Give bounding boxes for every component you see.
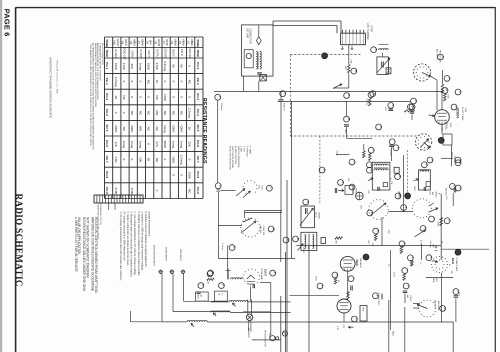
svg-text:1. DC voltage measurements ta: 1. DC voltage measurements taken with va…	[119, 211, 122, 281]
svg-text:2.2meg: 2.2meg	[114, 77, 118, 87]
svg-text:7: 7	[405, 269, 409, 271]
svg-text:3: 3	[398, 175, 402, 177]
svg-text:6: 6	[355, 318, 359, 320]
svg-text:245V: 245V	[315, 276, 317, 281]
svg-text:Pin 2: Pin 2	[105, 78, 109, 85]
svg-text:V2: V2	[178, 41, 182, 45]
svg-text:COIL: COIL	[260, 185, 262, 191]
svg-text:Pin 9: Pin 9	[105, 187, 109, 194]
svg-text:Pin 3: Pin 3	[105, 93, 109, 100]
svg-text:1meg: 1meg	[180, 141, 184, 149]
svg-text:5: 5	[232, 246, 236, 248]
svg-text:1meg: 1meg	[163, 125, 167, 133]
svg-text:22K: 22K	[188, 142, 192, 147]
svg-text:455KC: 455KC	[435, 192, 437, 199]
svg-text:Pin 6: Pin 6	[196, 140, 200, 147]
svg-text:V8: V8	[129, 41, 133, 45]
svg-text:100K: 100K	[188, 172, 192, 179]
svg-text:15: 15	[155, 80, 159, 84]
svg-text:NC NO CONNECTION: NC NO CONNECTION	[101, 43, 103, 65]
svg-text:voltage measurements.: voltage measurements.	[147, 211, 150, 237]
svg-text:AT MINIMUM POSITION: AT MINIMUM POSITION	[99, 204, 102, 225]
svg-text:MIX 6BE6: MIX 6BE6	[437, 301, 439, 311]
svg-text:2.2meg: 2.2meg	[163, 61, 167, 71]
svg-text:8: 8	[306, 201, 310, 203]
svg-text:IN 'AM' POSITION: IN 'AM' POSITION	[234, 146, 237, 164]
svg-text:DET: DET	[344, 66, 346, 71]
svg-text:1M: 1M	[199, 295, 201, 298]
svg-text:470K: 470K	[163, 94, 167, 101]
svg-text:M: M	[271, 228, 275, 231]
svg-text:7: 7	[393, 141, 397, 143]
svg-text:1. AM: 1. AM	[240, 146, 243, 152]
svg-text:7: 7	[351, 278, 355, 280]
svg-text:6BA6: 6BA6	[141, 39, 145, 46]
svg-text:PAGE 6: PAGE 6	[3, 9, 12, 37]
svg-text:6X4: 6X4	[149, 40, 153, 45]
svg-text:B: B	[354, 70, 358, 72]
svg-text:2ND IF: 2ND IF	[172, 49, 175, 57]
svg-text:2.2meg: 2.2meg	[188, 108, 192, 118]
svg-text:2: 2	[270, 187, 274, 189]
svg-text:Pin 4: Pin 4	[196, 109, 200, 116]
svg-text:1meg: 1meg	[122, 141, 126, 149]
svg-text:8: 8	[411, 106, 415, 108]
svg-text:Pin 1: Pin 1	[196, 62, 200, 69]
svg-text:247V: 247V	[393, 272, 395, 277]
svg-text:Pin 5: Pin 5	[196, 124, 200, 131]
svg-text:1ST AM IF AMP: 1ST AM IF AMP	[455, 257, 458, 272]
svg-text:240mmf: 240mmf	[220, 103, 222, 111]
svg-text:PHONO MOTOR: PHONO MOTOR	[264, 330, 266, 347]
svg-text:240mmf: 240mmf	[283, 103, 285, 111]
svg-text:3: 3	[423, 227, 427, 229]
svg-text:NOT SHOWN ON SCHEMATIC DIAGRAM: NOT SHOWN ON SCHEMATIC DIAGRAM	[86, 217, 90, 278]
svg-text:Pin 6: Pin 6	[105, 140, 109, 147]
svg-text:M: M	[443, 307, 447, 310]
svg-text:Pin 7: Pin 7	[105, 156, 109, 163]
svg-text:OSC MIX: OSC MIX	[188, 48, 191, 59]
svg-text:Pin 8: Pin 8	[196, 171, 200, 178]
svg-text:1K: 1K	[188, 127, 192, 131]
svg-text:Pin 7: Pin 7	[196, 156, 200, 163]
svg-text:25mf: 25mf	[361, 307, 363, 312]
svg-text:TUBE: TUBE	[196, 39, 200, 47]
svg-text:CONV: CONV	[131, 50, 134, 57]
svg-text:M: M	[370, 164, 374, 167]
svg-text:1: 1	[371, 94, 375, 96]
svg-text:9: 9	[322, 169, 326, 171]
svg-text:Pin 4: Pin 4	[105, 109, 109, 116]
svg-text:V3: V3	[170, 41, 174, 45]
svg-text:OSC: OSC	[257, 185, 259, 190]
svg-text:100K: 100K	[171, 125, 175, 132]
svg-text:2.2meg: 2.2meg	[221, 243, 223, 251]
svg-text:2: 2	[218, 96, 222, 98]
svg-text:CONV SW: CONV SW	[262, 226, 264, 236]
svg-text:68: 68	[171, 64, 175, 68]
svg-text:100K: 100K	[147, 63, 151, 70]
svg-text:22K: 22K	[384, 107, 386, 111]
svg-text:6BA6: 6BA6	[173, 39, 177, 46]
svg-text:4. Line voltage maintained at: 4. Line voltage maintained at 117 volts …	[133, 211, 136, 276]
svg-text:2. FM: 2. FM	[243, 146, 245, 152]
svg-text:DET AVC: DET AVC	[164, 48, 167, 58]
svg-text:MICROPHONE INPUT: MICROPHONE INPUT	[153, 245, 155, 267]
svg-text:4. TAPE: 4. TAPE	[248, 146, 251, 154]
svg-text:PHONO INPUT: PHONO INPUT	[165, 247, 167, 262]
svg-text:470K: 470K	[155, 63, 159, 70]
svg-text:9: 9	[447, 77, 451, 79]
svg-text:SWITCH SEQUENCE:: SWITCH SEQUENCE:	[237, 146, 239, 169]
svg-text:3: 3	[352, 161, 356, 163]
svg-text:100mf: 100mf	[268, 333, 270, 339]
svg-text:NO DIM RESISTANCE VALUES UNDER: NO DIM RESISTANCE VALUES UNDER ONE OHM	[82, 217, 86, 291]
svg-text:5: 5	[379, 126, 383, 128]
svg-text:ARROWS ON CONTROLS INDICATE CL: ARROWS ON CONTROLS INDICATE CLOCKWISE	[91, 217, 95, 291]
svg-text:6: 6	[347, 94, 351, 96]
svg-text:6AL5: 6AL5	[124, 39, 128, 46]
svg-text:SLUG: SLUG	[315, 212, 317, 218]
svg-text:©Howard W. Sams & Co., Inc. 19: ©Howard W. Sams & Co., Inc. 1958	[55, 60, 58, 94]
svg-text:6: 6	[396, 147, 400, 149]
svg-text:1.5 10%: 1.5 10%	[389, 149, 391, 156]
svg-text:RECT: RECT	[147, 50, 150, 57]
svg-text:.1: .1	[155, 189, 159, 192]
svg-text:A PHOTOFACT STANDARD NOTATION: A PHOTOFACT STANDARD NOTATION SCHEMATIC	[49, 57, 53, 118]
svg-text:10K: 10K	[138, 157, 142, 162]
svg-text:25mf: 25mf	[458, 292, 460, 297]
svg-text:ITEM: ITEM	[196, 50, 200, 57]
svg-text:1ST AF AMP: 1ST AF AMP	[260, 268, 263, 280]
svg-text:455KC: 455KC	[355, 188, 357, 195]
svg-text:4: 4	[404, 206, 408, 208]
svg-text:V7: V7	[137, 41, 141, 45]
svg-text:2ND AM IF: 2ND AM IF	[359, 258, 362, 269]
svg-text:9: 9	[414, 100, 418, 102]
svg-text:4: 4	[398, 195, 402, 197]
svg-text:6BJ6: 6BJ6	[355, 260, 359, 267]
svg-text:1: 1	[352, 186, 356, 188]
svg-text:AC voltages measured at 1000 o: AC voltages measured at 1000 ohms-per-vo…	[123, 211, 126, 261]
svg-text:470K: 470K	[122, 63, 126, 70]
svg-text:Pin 1: Pin 1	[105, 62, 109, 69]
svg-text:OUTPUT: OUTPUT	[155, 49, 158, 59]
svg-text:2.2meg: 2.2meg	[429, 241, 431, 248]
svg-text:6AQ5: 6AQ5	[157, 39, 161, 46]
svg-text:12AX7: 12AX7	[116, 39, 120, 48]
svg-text:AM: AM	[406, 295, 409, 298]
svg-text:12AX7: 12AX7	[264, 269, 267, 277]
svg-text:Pin 9: Pin 9	[196, 187, 200, 194]
svg-text:1meg: 1meg	[138, 141, 142, 149]
svg-text:1M: 1M	[207, 281, 209, 284]
svg-text:3. Measured values are from s: 3. Measured values are from socket pin t…	[130, 211, 133, 277]
svg-text:3. PHONO: 3. PHONO	[245, 146, 247, 157]
svg-text:4: 4	[283, 93, 287, 95]
svg-text:PM SPKR: PM SPKR	[247, 328, 249, 338]
svg-text:470K: 470K	[130, 188, 134, 195]
svg-text:RATIO DET: RATIO DET	[122, 47, 125, 60]
svg-text:Pin 8: Pin 8	[105, 171, 109, 178]
svg-text:AM OSC: AM OSC	[434, 300, 437, 309]
svg-text:500K: 500K	[163, 141, 167, 148]
svg-text:100K: 100K	[130, 125, 134, 132]
svg-text:ITEM: ITEM	[105, 50, 109, 57]
svg-text:Pin 3: Pin 3	[196, 93, 200, 100]
svg-text:CONNECTION: CONNECTION	[249, 28, 251, 44]
svg-text:5: 5	[335, 274, 339, 276]
svg-text:E: E	[296, 238, 300, 240]
svg-text:SWITCH(ES) SHOWN: SWITCH(ES) SHOWN	[231, 146, 233, 168]
svg-text:8: 8	[222, 284, 226, 286]
svg-text:1ST IF: 1ST IF	[180, 49, 183, 57]
svg-text:RF AMP: RF AMP	[139, 49, 142, 58]
svg-text:3: 3	[458, 162, 462, 164]
svg-text:CONV: CONV	[409, 295, 411, 301]
svg-text:2.2meg: 2.2meg	[180, 155, 184, 165]
svg-text:a variation of ±15% in voltage: a variation of ±15% in voltage and resis…	[140, 211, 143, 271]
svg-text:5. Nominal tolerances of comp: 5. Nominal tolerances of component value…	[137, 211, 140, 276]
svg-text:255V: 255V	[450, 152, 452, 157]
svg-text:V9: V9	[121, 41, 125, 45]
svg-text:(FM): (FM)	[464, 108, 466, 113]
svg-text:OSC: OSC	[360, 205, 362, 210]
svg-text:ARM: ARM	[432, 278, 435, 283]
svg-text:AVC: AVC	[344, 130, 347, 134]
svg-text:6: 6	[372, 149, 376, 151]
svg-text:22K: 22K	[130, 64, 134, 69]
svg-text:1K: 1K	[114, 95, 118, 99]
svg-text:TUBE: TUBE	[105, 39, 109, 47]
svg-text:95: 95	[147, 158, 151, 162]
svg-text:1meg: 1meg	[130, 141, 134, 149]
svg-text:VALUE OR APPLICATION: VALUE OR APPLICATION	[77, 217, 81, 255]
svg-text:6AT6: 6AT6	[165, 39, 169, 46]
svg-text:250: 250	[155, 110, 159, 115]
svg-text:2: 2	[402, 243, 406, 245]
svg-text:6CB6A: 6CB6A	[456, 108, 460, 119]
svg-text:2: 2	[273, 272, 277, 274]
svg-text:TUNING IND: TUNING IND	[377, 292, 379, 305]
svg-text:EXT AMP: EXT AMP	[246, 28, 249, 38]
svg-text:IN 1ST IF AMP: IN 1ST IF AMP	[461, 107, 464, 121]
svg-text:6. Volume control at minimum,: 6. Volume control at minimum, no-signal …	[144, 211, 147, 267]
svg-text:2: 2	[458, 91, 462, 93]
svg-text:100K: 100K	[437, 222, 439, 227]
svg-text:6BJ6: 6BJ6	[451, 258, 455, 265]
svg-text:V5: V5	[154, 41, 158, 45]
svg-text:6BE6: 6BE6	[132, 39, 136, 46]
svg-text:3.3K: 3.3K	[350, 59, 352, 64]
svg-text:8: 8	[430, 159, 434, 161]
svg-text:RESISTANCE READINGS: RESISTANCE READINGS	[201, 98, 207, 164]
svg-text:455KC: 455KC	[302, 247, 304, 254]
svg-text:1meg: 1meg	[138, 63, 142, 71]
svg-text:6BA6: 6BA6	[182, 39, 186, 46]
svg-text:RADIO SCHEMATIC: RADIO SCHEMATIC	[14, 194, 24, 287]
svg-text:4: 4	[411, 257, 415, 259]
svg-text:8: 8	[286, 239, 290, 241]
svg-text:455KC: 455KC	[445, 122, 447, 129]
svg-text:4: 4	[210, 273, 214, 275]
svg-text:4: 4	[425, 164, 429, 166]
svg-text:3.3meg: 3.3meg	[365, 98, 367, 106]
svg-text:100K: 100K	[447, 94, 449, 99]
svg-text:100K: 100K	[171, 156, 175, 163]
svg-text:4: 4	[320, 285, 324, 287]
svg-text:1meg: 1meg	[171, 141, 175, 149]
svg-text:2.5V: 2.5V	[336, 326, 338, 331]
svg-text:7: 7	[432, 218, 436, 220]
svg-text:TAPE INPUT: TAPE INPUT	[179, 249, 182, 262]
svg-text:N: N	[370, 169, 374, 171]
svg-text:270: 270	[155, 142, 159, 147]
svg-text:24V: 24V	[431, 244, 433, 248]
svg-text:STRIP: STRIP	[369, 25, 371, 32]
svg-text:2: 2	[429, 257, 433, 259]
svg-text:Pin 5: Pin 5	[105, 124, 109, 131]
svg-text:6: 6	[201, 284, 205, 286]
svg-text:ANT. TERMINAL: ANT. TERMINAL	[366, 23, 369, 41]
svg-text:20: 20	[337, 280, 339, 282]
svg-text:25mf: 25mf	[196, 295, 198, 300]
svg-text:3: 3	[441, 56, 445, 58]
svg-text:250V: 250V	[336, 151, 338, 157]
svg-text:FUNCTION SELECTOR: FUNCTION SELECTOR	[228, 146, 230, 170]
svg-text:9: 9	[376, 230, 380, 232]
svg-text:AF AMP: AF AMP	[114, 49, 117, 58]
svg-text:V6: V6	[145, 41, 149, 45]
svg-text:OSC: OSC	[428, 191, 430, 196]
svg-text:AVC: AVC	[435, 278, 438, 282]
svg-text:9: 9	[391, 104, 395, 106]
svg-text:100K: 100K	[180, 125, 184, 132]
svg-text:270K: 270K	[114, 188, 118, 195]
svg-text:5: 5	[447, 220, 451, 222]
svg-text:68: 68	[180, 64, 184, 68]
svg-text:9: 9	[341, 181, 345, 183]
svg-text:V10: V10	[113, 40, 117, 45]
svg-text:6: 6	[370, 212, 374, 214]
svg-text:6BE6: 6BE6	[190, 39, 194, 46]
svg-text:2. Socket connections are sho: 2. Socket connections are shown as botto…	[126, 211, 129, 266]
svg-text:100K: 100K	[114, 125, 118, 132]
svg-text:8: 8	[407, 285, 411, 287]
svg-text:1.5K: 1.5K	[114, 156, 118, 162]
svg-text:3: 3	[219, 185, 223, 187]
svg-text:TUNED: TUNED	[318, 212, 320, 219]
svg-text:V1: V1	[186, 41, 190, 45]
svg-text:V4: V4	[162, 41, 166, 45]
svg-text:FM MIX OSC: FM MIX OSC	[439, 50, 441, 63]
svg-text:6AB5: 6AB5	[380, 294, 383, 301]
svg-text:AM OSC: AM OSC	[259, 226, 262, 234]
svg-text:47K: 47K	[114, 142, 118, 147]
svg-text:6: 6	[459, 187, 463, 189]
svg-text:140V: 140V	[449, 123, 451, 128]
svg-text:Pin 2: Pin 2	[196, 78, 200, 85]
svg-text:100K: 100K	[114, 63, 118, 70]
svg-text:60K: 60K	[138, 126, 142, 131]
